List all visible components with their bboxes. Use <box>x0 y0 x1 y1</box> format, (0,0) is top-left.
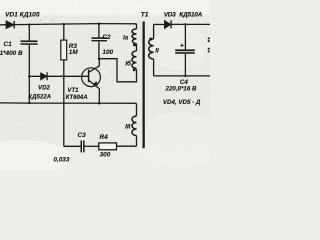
wire bottom rail <box>0 102 137 104</box>
svg-text:КД522А: КД522А <box>28 93 51 100</box>
node base junction <box>63 75 66 78</box>
wire collector node to transformer drop <box>99 59 136 82</box>
svg-text:100: 100 <box>102 49 113 56</box>
plus sign of C4 <box>180 44 183 47</box>
wire left rail lower <box>28 76 30 103</box>
wire VD3 cathode to right edge <box>171 23 210 25</box>
wire C4 top lead <box>184 24 186 49</box>
wire C2 top lead <box>98 24 100 38</box>
terminal marks right edge <box>208 38 210 53</box>
svg-text:VT1: VT1 <box>67 87 79 94</box>
svg-text:III: III <box>125 123 130 130</box>
node C4 bottom <box>184 75 187 78</box>
wire top rail right <box>154 23 165 25</box>
diode VD2 <box>41 72 47 80</box>
transformer T1 winding Ia <box>132 24 137 44</box>
svg-text:С2: С2 <box>102 34 111 41</box>
wire VD2 anode <box>29 75 41 77</box>
diode VD1 <box>6 21 14 29</box>
svg-text:КД510А: КД510А <box>179 12 202 19</box>
node top of C1 branch <box>28 24 31 27</box>
transformer T1 winding Ib <box>132 51 137 68</box>
svg-text:Т1: Т1 <box>141 12 149 19</box>
svg-text:VD2: VD2 <box>38 85 50 92</box>
svg-text:КТ604А: КТ604А <box>66 94 88 101</box>
node collector <box>98 57 101 60</box>
capacitor C4 <box>175 49 195 53</box>
svg-text:VD4, VD5 - Д: VD4, VD5 - Д <box>163 99 201 106</box>
svg-text:VD1 КД105: VD1 КД105 <box>5 11 40 18</box>
transformer T1 winding II <box>149 24 154 76</box>
wire C4 bottom lead <box>184 54 186 76</box>
svg-text:300: 300 <box>100 151 111 158</box>
svg-text:1М: 1М <box>69 49 79 56</box>
wire C2 bottom lead to collector node <box>98 41 100 58</box>
svg-text:С3: С3 <box>78 132 87 139</box>
wire R3 bottom to base node to C3 corner <box>63 60 65 146</box>
transformer T1 winding III <box>132 103 137 146</box>
node C2 top <box>98 22 101 25</box>
node emitter on bottom rail <box>98 102 101 105</box>
paper background <box>0 0 210 170</box>
node winding Ia dot <box>133 43 136 46</box>
capacitor C1 <box>21 40 38 44</box>
wire C1 to VD2 node <box>28 45 30 77</box>
transistor VT1 <box>64 59 101 103</box>
capacitor C3 <box>81 140 85 152</box>
node top rail R3 <box>63 23 66 26</box>
svg-text:VD3: VD3 <box>164 12 176 19</box>
wire R4 to winding III <box>117 145 137 147</box>
svg-text:Iб: Iб <box>125 60 131 67</box>
wire between Ia and Ib <box>136 44 138 51</box>
svg-text:II: II <box>155 47 159 54</box>
svg-text:С1: С1 <box>4 41 13 48</box>
node winding Ib dot <box>133 68 136 71</box>
wire VD2 cathode to base node <box>47 75 64 77</box>
svg-text:Iа: Iа <box>123 34 129 41</box>
svg-text:R4: R4 <box>100 134 109 141</box>
node bottom rail left <box>28 102 30 104</box>
wire C3 left <box>64 145 81 147</box>
wire bottom rail right <box>154 75 210 77</box>
node winding II dot <box>149 38 152 41</box>
wire R3 top lead <box>63 24 65 40</box>
node C4 top <box>184 23 187 26</box>
wire C3 to R4 <box>85 145 99 147</box>
wire top rail left <box>0 24 7 26</box>
capacitor C2 <box>92 37 108 41</box>
svg-text:220,0*16 В: 220,0*16 В <box>165 86 197 93</box>
wire top rail continues <box>14 24 136 25</box>
scan speckle <box>0 0 225 176</box>
svg-text:0,033: 0,033 <box>53 157 69 164</box>
transformer core <box>143 22 145 149</box>
resistor R3 <box>61 40 67 60</box>
resistor R4 <box>99 143 117 150</box>
svg-text:1*400 В: 1*400 В <box>0 50 23 57</box>
diode VD3 <box>165 20 171 28</box>
wire C1 branch upper <box>28 25 30 41</box>
node left rail / VD2 <box>28 75 31 78</box>
